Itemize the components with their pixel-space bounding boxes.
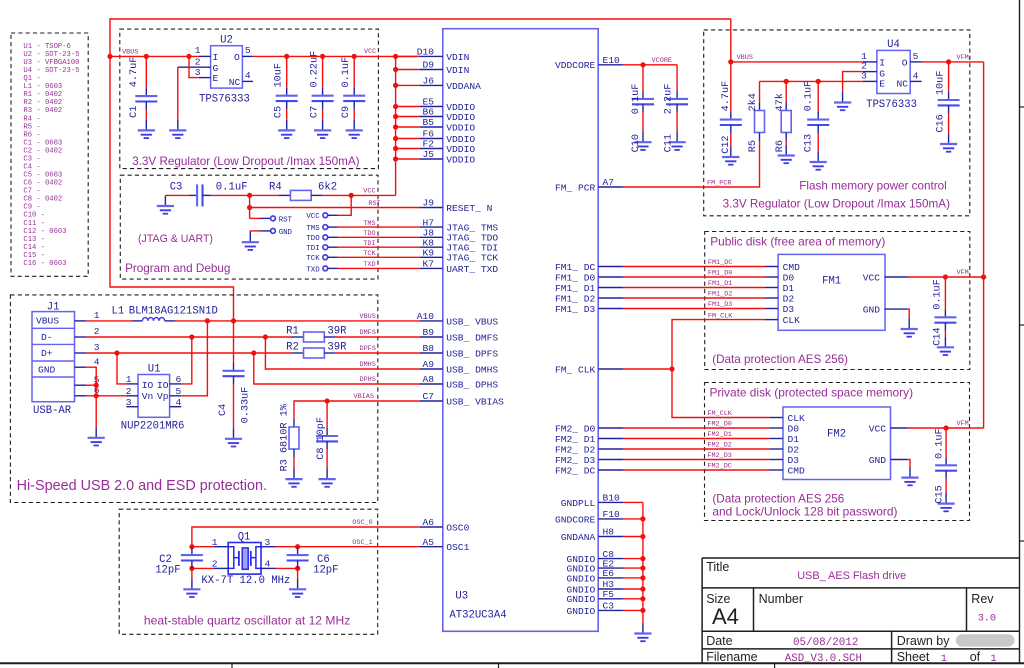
ground C5 bbox=[278, 120, 295, 138]
oscillator dashed box bbox=[119, 509, 378, 634]
svg-text:R5 -: R5 - bbox=[23, 123, 40, 131]
svg-text:U4: U4 bbox=[887, 39, 900, 51]
svg-text:(Data protection AES 256): (Data protection AES 256) bbox=[712, 353, 848, 366]
svg-text:TMS: TMS bbox=[306, 225, 320, 233]
svg-text:1: 1 bbox=[195, 45, 201, 56]
svg-text:B5: B5 bbox=[422, 117, 434, 128]
FM2 pin D2 bbox=[770, 448, 783, 450]
svg-text:OSC_1: OSC_1 bbox=[352, 539, 372, 547]
svg-text:C13: C13 bbox=[804, 134, 815, 152]
svg-text:R6 -: R6 - bbox=[23, 131, 40, 139]
U3 pin B9 USB_ DMFS bbox=[420, 336, 443, 338]
ground R6 bbox=[778, 145, 795, 163]
svg-text:FM2_ D2: FM2_ D2 bbox=[555, 444, 596, 455]
svg-text:A7: A7 bbox=[603, 177, 615, 188]
svg-text:C7: C7 bbox=[422, 391, 434, 402]
svg-text:USB_ DPFS: USB_ DPFS bbox=[446, 348, 498, 359]
U3 pin FM1_ D1 bbox=[598, 287, 623, 289]
FM2 pin D0 bbox=[770, 427, 783, 429]
svg-text:R2 - 0402: R2 - 0402 bbox=[23, 99, 62, 107]
svg-text:DPHS: DPHS bbox=[360, 376, 376, 384]
capacitor C14 bbox=[944, 277, 946, 309]
U4 pin 1 stub bbox=[863, 61, 877, 63]
svg-text:VDIN: VDIN bbox=[446, 65, 469, 76]
svg-text:FM_ CLK: FM_ CLK bbox=[555, 364, 596, 375]
capacitor C7 bbox=[322, 56, 324, 87]
svg-text:VDDIO: VDDIO bbox=[446, 112, 475, 123]
ground C6 bbox=[289, 579, 306, 597]
U3 pin J8 JTAG_ TDO bbox=[420, 236, 443, 238]
wire VBUS feeder to USB section bbox=[110, 56, 234, 321]
capacitor C11 bbox=[676, 65, 678, 91]
Hi-Speed USB dashed box bbox=[10, 295, 377, 503]
U1 pin 1 stub bbox=[126, 383, 138, 385]
svg-text:D3: D3 bbox=[788, 455, 800, 466]
svg-text:USB-AR: USB-AR bbox=[33, 405, 72, 417]
svg-text:U2: U2 bbox=[220, 34, 233, 46]
ground JTAG header bbox=[242, 232, 259, 250]
svg-text:C15: C15 bbox=[935, 485, 946, 503]
svg-text:VCORE: VCORE bbox=[652, 57, 672, 65]
svg-text:VBUS: VBUS bbox=[36, 315, 59, 326]
border zone tick bottom x498 bbox=[498, 663, 500, 668]
U4 pin 5 stub bbox=[910, 61, 921, 63]
svg-text:0.1uF: 0.1uF bbox=[804, 81, 815, 112]
svg-text:3: 3 bbox=[265, 537, 271, 548]
svg-text:D0: D0 bbox=[783, 272, 795, 283]
svg-text:4: 4 bbox=[245, 70, 251, 81]
svg-text:GND: GND bbox=[279, 229, 293, 237]
wire U2 pin3 to rail bbox=[189, 56, 199, 77]
svg-text:UART_ TXD: UART_ TXD bbox=[446, 264, 498, 275]
wire FM2 GND to ground bbox=[907, 460, 910, 468]
svg-text:Sheet: Sheet bbox=[897, 650, 930, 664]
svg-text:C1: C1 bbox=[129, 106, 140, 118]
U3 pin FM2_ D3 bbox=[598, 459, 623, 461]
pin VCC open circle bbox=[323, 213, 328, 218]
svg-text:VDIN: VDIN bbox=[446, 52, 469, 63]
wire TDO to chip bbox=[328, 236, 338, 238]
svg-text:FM1_ D2: FM1_ D2 bbox=[555, 293, 596, 304]
svg-text:GNDCORE: GNDCORE bbox=[555, 514, 596, 525]
svg-text:JTAG_ TCK: JTAG_ TCK bbox=[446, 253, 498, 264]
svg-text:TDO: TDO bbox=[363, 230, 375, 238]
ground C16 bbox=[940, 133, 957, 151]
svg-text:3: 3 bbox=[94, 342, 100, 353]
capacitor C12 bbox=[730, 62, 732, 112]
wire R1 to chip DMFS bbox=[336, 336, 420, 338]
svg-text:TDO: TDO bbox=[306, 235, 320, 243]
wire VBUS rail to U4 pin1 bbox=[731, 61, 863, 63]
capacitor C8 bbox=[326, 401, 328, 428]
ground U2 pin2 bbox=[169, 120, 186, 138]
U3 pin FM2_ D0 bbox=[598, 427, 623, 429]
flash power dashed box bbox=[704, 30, 970, 216]
U3 pin K7 UART_ TXD bbox=[420, 267, 443, 269]
svg-text:VBIAS: VBIAS bbox=[354, 393, 374, 401]
svg-text:C8 - 0402: C8 - 0402 bbox=[23, 196, 62, 204]
svg-text:J5: J5 bbox=[422, 149, 434, 160]
wire FM_CLK to FM2 bbox=[672, 369, 770, 418]
svg-text:1: 1 bbox=[94, 310, 100, 321]
wire top rail bbox=[110, 19, 731, 56]
svg-text:VDDANA: VDDANA bbox=[446, 81, 481, 92]
capacitor C4 symbol bbox=[223, 363, 245, 384]
svg-text:3: 3 bbox=[126, 397, 132, 408]
capacitor C16 bbox=[948, 62, 950, 92]
svg-text:C16: C16 bbox=[936, 114, 947, 132]
svg-text:USB_ DMHS: USB_ DMHS bbox=[446, 364, 498, 375]
svg-text:C12: C12 bbox=[721, 135, 732, 153]
wire R5 bottom FM_PCR bbox=[623, 141, 760, 188]
svg-text:R3 6810R 1%: R3 6810R 1% bbox=[280, 403, 291, 471]
svg-text:(JTAG & UART): (JTAG & UART) bbox=[138, 233, 213, 245]
U3 pin F6 VDDIO bbox=[420, 138, 443, 140]
svg-text:10uF: 10uF bbox=[274, 63, 285, 87]
svg-text:Title: Title bbox=[706, 560, 729, 574]
svg-text:C7: C7 bbox=[309, 106, 320, 118]
svg-text:U3 - VFBGA100: U3 - VFBGA100 bbox=[23, 59, 79, 67]
svg-text:VCC: VCC bbox=[863, 272, 881, 283]
wire Q1 pin3 to C6 bbox=[276, 546, 298, 548]
svg-text:0.33uF: 0.33uF bbox=[240, 387, 251, 424]
svg-text:GNDIO: GNDIO bbox=[567, 606, 596, 617]
svg-text:FM2_ D3: FM2_ D3 bbox=[555, 455, 596, 466]
svg-text:GNDIO: GNDIO bbox=[567, 594, 596, 605]
FM2 pin D1 bbox=[770, 438, 783, 440]
ground C14 bbox=[937, 337, 954, 355]
svg-text:R1 - 0402: R1 - 0402 bbox=[23, 91, 62, 99]
svg-text:TPS76333: TPS76333 bbox=[866, 99, 917, 111]
svg-text:TXD: TXD bbox=[306, 266, 320, 274]
capacitor C9 bbox=[353, 56, 355, 87]
svg-text:R5: R5 bbox=[748, 140, 759, 152]
U3 pin J9 RESET_ N bbox=[420, 207, 443, 209]
svg-text:C3: C3 bbox=[170, 181, 183, 193]
svg-text:AT32UC3A4: AT32UC3A4 bbox=[449, 610, 506, 622]
svg-text:DPFS: DPFS bbox=[360, 345, 376, 353]
U2 pin 1 stub bbox=[199, 55, 211, 57]
U3 pin B5 VDDIO bbox=[420, 126, 443, 128]
svg-text:5: 5 bbox=[245, 45, 251, 56]
FM1 pin GND bbox=[885, 308, 908, 310]
svg-text:GNDIO: GNDIO bbox=[567, 573, 596, 584]
capacitor C15 bbox=[945, 428, 947, 457]
svg-text:J6: J6 bbox=[422, 76, 434, 87]
svg-text:GNDPLL: GNDPLL bbox=[561, 498, 596, 509]
svg-text:I: I bbox=[213, 52, 219, 63]
wire TDI to chip bbox=[328, 246, 338, 248]
FM1 pin D1 bbox=[765, 287, 778, 289]
inductor L1 row VBUS bbox=[86, 320, 132, 322]
U3 pin C8 bbox=[598, 558, 623, 560]
svg-text:VDDIO: VDDIO bbox=[446, 154, 475, 165]
U3 pin K8 JTAG_ TDI bbox=[420, 246, 443, 248]
capacitor C15 symbol bbox=[935, 457, 957, 478]
svg-text:Date: Date bbox=[706, 634, 732, 648]
wire rail U2 out to bus bbox=[253, 55, 420, 57]
svg-text:R1: R1 bbox=[286, 325, 299, 337]
svg-text:OSC0: OSC0 bbox=[446, 522, 469, 533]
capacitor C2 symbol bbox=[181, 547, 203, 568]
U3 pin H7 JTAG_ TMS bbox=[420, 226, 443, 228]
svg-text:0.1uF: 0.1uF bbox=[341, 57, 352, 88]
wire J1 pin4 GND down bbox=[86, 367, 96, 427]
capacitor C11 symbol bbox=[666, 91, 688, 112]
U3 pin FM2_ DC bbox=[598, 469, 623, 471]
wire VBIAS row bbox=[294, 401, 420, 419]
svg-text:E: E bbox=[213, 73, 219, 84]
wire U4 pin3 rail bbox=[760, 80, 863, 82]
resistor R6 symbol bbox=[781, 103, 791, 141]
svg-text:0.22uF: 0.22uF bbox=[309, 51, 320, 88]
J1 pin 5 stub bbox=[75, 384, 87, 386]
U3 pin D10 VDIN bbox=[420, 55, 443, 57]
U2 pin 3 stub bbox=[199, 77, 211, 79]
wire OSC_O row bbox=[192, 527, 420, 547]
U3 pin E5 VDDIO bbox=[420, 106, 443, 108]
svg-text:RESET_ N: RESET_ N bbox=[446, 203, 492, 214]
wire VDDCORE to C10 C11 bbox=[623, 64, 677, 66]
U3 pin A8 USB_ DPHS bbox=[420, 383, 443, 385]
svg-text:GND: GND bbox=[869, 455, 887, 466]
border zone tick bottom x232 bbox=[231, 663, 233, 668]
svg-text:A5: A5 bbox=[422, 537, 434, 548]
svg-text:FM2_DC: FM2_DC bbox=[707, 463, 731, 471]
FM1 pin D3 bbox=[765, 308, 778, 310]
wire R4 right to VCC bus bbox=[323, 194, 396, 196]
svg-text:C14: C14 bbox=[933, 327, 944, 345]
svg-text:VBUS: VBUS bbox=[737, 54, 753, 62]
FM2 pin VCC bbox=[891, 427, 908, 429]
wire R2 to chip DPFS bbox=[336, 352, 420, 354]
pin RST open circle bbox=[271, 216, 276, 221]
svg-text:VCC: VCC bbox=[306, 213, 320, 221]
svg-text:U1 - TSOP-6: U1 - TSOP-6 bbox=[23, 43, 70, 51]
wire GND pin to ground bbox=[261, 230, 271, 232]
svg-text:TDI: TDI bbox=[363, 240, 375, 248]
svg-text:C9 -: C9 - bbox=[23, 204, 40, 212]
wire U1 pin1 to D+ bbox=[117, 353, 126, 384]
U3 pin FM1_ DC bbox=[598, 266, 623, 268]
svg-text:FM1_ D1: FM1_ D1 bbox=[555, 283, 596, 294]
svg-text:4: 4 bbox=[94, 356, 100, 367]
wire TXD to chip bbox=[328, 267, 338, 269]
J1 cell labels bbox=[36, 315, 59, 375]
capacitor C13 symbol bbox=[807, 112, 829, 133]
svg-text:TCK: TCK bbox=[363, 250, 376, 258]
svg-text:2: 2 bbox=[195, 56, 201, 67]
wire U4 pin2 to ground bbox=[843, 72, 863, 92]
svg-text:4: 4 bbox=[913, 71, 919, 82]
svg-text:VCC: VCC bbox=[364, 48, 376, 56]
U1 pin 6 stub bbox=[170, 383, 182, 385]
svg-text:C3 -: C3 - bbox=[23, 156, 40, 164]
ground C13 bbox=[810, 151, 827, 169]
svg-text:GND: GND bbox=[863, 305, 881, 316]
svg-text:D0: D0 bbox=[788, 423, 800, 434]
wire VFM bus vertical bbox=[983, 62, 985, 428]
svg-text:of: of bbox=[970, 650, 981, 664]
svg-text:RST: RST bbox=[279, 216, 293, 224]
svg-text:C11: C11 bbox=[664, 134, 675, 152]
pin TXD open circle bbox=[323, 266, 328, 271]
svg-text:Private disk (protected space: Private disk (protected space memory) bbox=[710, 386, 914, 400]
svg-text:USB_ DMFS: USB_ DMFS bbox=[446, 332, 498, 343]
wire VCC pin to R4 junction bbox=[328, 214, 338, 216]
svg-text:IO: IO bbox=[157, 380, 169, 391]
svg-text:Program and Debug: Program and Debug bbox=[125, 262, 230, 275]
svg-text:C4: C4 bbox=[218, 404, 229, 416]
U3 pin K9 JTAG_ TCK bbox=[420, 256, 443, 258]
svg-text:Flash memory power control: Flash memory power control bbox=[799, 179, 946, 192]
svg-text:J1: J1 bbox=[47, 301, 60, 313]
wire to RST pin circle bbox=[250, 217, 261, 219]
pin GND open circle bbox=[271, 229, 276, 234]
wire OSC_I row bbox=[298, 546, 420, 548]
memory FM2 bbox=[783, 407, 891, 480]
U3 pin F10 bbox=[598, 518, 623, 520]
border zone tick right y541 bbox=[1020, 540, 1024, 542]
ESD protection U1 NUP2201MR6 bbox=[138, 375, 170, 418]
svg-text:FM2_D2: FM2_D2 bbox=[707, 442, 731, 450]
svg-text:12pF: 12pF bbox=[313, 565, 338, 577]
U4 pin letters bbox=[879, 57, 908, 89]
ground FM2 bbox=[901, 467, 918, 485]
ground C1 bbox=[138, 120, 155, 138]
svg-text:ASD_V3.0.SCH: ASD_V3.0.SCH bbox=[785, 653, 862, 665]
svg-text:B8: B8 bbox=[422, 343, 434, 354]
U3 pin E6 bbox=[598, 577, 623, 579]
ground C7 bbox=[314, 120, 331, 138]
J1 pin 1 stub bbox=[75, 320, 87, 322]
FM1 pin CMD bbox=[765, 266, 778, 268]
ground C2 bbox=[183, 579, 200, 597]
svg-text:H8: H8 bbox=[603, 527, 615, 538]
U3 pin A5 OSC1 bbox=[420, 546, 443, 548]
svg-text:FM2_D3: FM2_D3 bbox=[707, 452, 731, 460]
U3 pin J5 VDDIO bbox=[420, 158, 443, 160]
svg-text:U4 - SOT-23-5: U4 - SOT-23-5 bbox=[23, 67, 79, 75]
U3 pin H3 bbox=[598, 588, 623, 590]
svg-text:OSC_0: OSC_0 bbox=[352, 519, 372, 527]
U1 pin 3 stub bbox=[126, 406, 138, 408]
svg-text:0.1uF: 0.1uF bbox=[933, 279, 944, 310]
wire C3 to R4 bbox=[211, 194, 280, 196]
Program and Debug dashed box bbox=[120, 175, 378, 279]
svg-text:Rev: Rev bbox=[971, 592, 994, 606]
svg-text:D1: D1 bbox=[788, 434, 800, 445]
svg-text:1: 1 bbox=[941, 654, 947, 665]
svg-text:5: 5 bbox=[913, 51, 919, 62]
svg-text:E6: E6 bbox=[603, 568, 615, 579]
svg-text:J9: J9 bbox=[422, 198, 434, 209]
svg-text:U1: U1 bbox=[148, 363, 161, 375]
border zone tick right y107 bbox=[1020, 106, 1024, 108]
wire C3 left bbox=[165, 194, 189, 196]
svg-text:47k: 47k bbox=[774, 93, 786, 111]
ground FM1 bbox=[901, 318, 918, 336]
wire VBUS rail bbox=[110, 55, 199, 57]
svg-text:3.0: 3.0 bbox=[978, 614, 996, 625]
wire D+ row bbox=[86, 352, 292, 354]
wire U1 pin5 to VBUS bbox=[181, 321, 207, 396]
FM2 pin D3 bbox=[770, 459, 783, 461]
svg-text:DMFS: DMFS bbox=[360, 329, 376, 337]
svg-text:FM_CLK: FM_CLK bbox=[707, 410, 732, 418]
svg-text:NC: NC bbox=[896, 78, 908, 89]
svg-text:CMD: CMD bbox=[783, 262, 801, 273]
capacitor C12 symbol bbox=[720, 112, 742, 133]
wire GND bus of U3 bbox=[623, 501, 643, 503]
svg-text:IO: IO bbox=[142, 380, 154, 391]
svg-text:VCC: VCC bbox=[869, 423, 887, 434]
svg-text:FM1_DC: FM1_DC bbox=[708, 259, 732, 267]
U3 pin A7 bbox=[598, 186, 623, 188]
svg-text:FM1_D2: FM1_D2 bbox=[708, 291, 732, 299]
svg-text:and Lock/Unlock 128 bit passwo: and Lock/Unlock 128 bit password) bbox=[712, 505, 897, 519]
FM1 pin VCC bbox=[885, 276, 908, 278]
memory FM1 bbox=[778, 254, 885, 330]
svg-text:heat-stable quartz oscillator: heat-stable quartz oscillator at 12 MHz bbox=[144, 614, 350, 628]
svg-text:0.1uF: 0.1uF bbox=[935, 428, 946, 459]
svg-text:FM1_ D0: FM1_ D0 bbox=[555, 272, 596, 283]
U3 pin E10 bbox=[598, 64, 623, 66]
svg-text:R4: R4 bbox=[269, 181, 282, 193]
svg-text:FM_PCR: FM_PCR bbox=[707, 180, 731, 188]
title block frame bbox=[702, 558, 1019, 663]
capacitor C5 symbol bbox=[276, 88, 298, 109]
svg-text:3.3V Regulator (Low Dropout /I: 3.3V Regulator (Low Dropout /Imax 150mA) bbox=[132, 155, 359, 168]
wire DMHS branch bbox=[265, 337, 420, 369]
svg-text:A4: A4 bbox=[712, 604, 739, 629]
svg-text:C10 -: C10 - bbox=[23, 212, 45, 220]
svg-text:5: 5 bbox=[176, 386, 182, 397]
svg-text:R2: R2 bbox=[286, 342, 299, 354]
svg-text:VFM: VFM bbox=[957, 54, 969, 62]
svg-text:DMHS: DMHS bbox=[360, 361, 376, 369]
svg-text:TPS76333: TPS76333 bbox=[199, 94, 250, 106]
wire VBUS row to chip bbox=[176, 320, 420, 322]
svg-text:39R: 39R bbox=[327, 325, 347, 337]
FM1 pin CLK bbox=[765, 319, 778, 321]
U2 pin letters bbox=[213, 52, 241, 88]
svg-text:C7 -: C7 - bbox=[23, 188, 40, 196]
ground C3 left bbox=[157, 195, 174, 213]
svg-text:2: 2 bbox=[126, 386, 132, 397]
svg-text:C8 10pF: C8 10pF bbox=[316, 417, 327, 460]
svg-text:FM1_ D3: FM1_ D3 bbox=[555, 304, 596, 315]
svg-text:05/08/2012: 05/08/2012 bbox=[793, 637, 858, 649]
pin TCK open circle bbox=[323, 255, 328, 260]
wire U4 output VFM bbox=[922, 61, 984, 63]
inductor L1 BLM18AG121SN1D bbox=[133, 318, 176, 321]
ground U3 bbox=[634, 623, 651, 641]
ground C9 bbox=[346, 120, 363, 138]
svg-text:C6 - 0402: C6 - 0402 bbox=[23, 180, 62, 188]
svg-text:L1 - 0603: L1 - 0603 bbox=[23, 83, 62, 91]
svg-text:O: O bbox=[234, 52, 240, 63]
ground C8 bbox=[319, 469, 336, 487]
svg-text:3.3V Regulator (Low Dropout /I: 3.3V Regulator (Low Dropout /Imax 150mA) bbox=[723, 198, 950, 211]
U3 pin B10 bbox=[598, 501, 623, 503]
svg-text:BLM18AG121SN1D: BLM18AG121SN1D bbox=[129, 306, 218, 318]
svg-text:FM1: FM1 bbox=[822, 275, 841, 287]
wire TMS to chip bbox=[328, 226, 338, 228]
U3 pin D9 VDIN bbox=[420, 69, 443, 71]
regulator U4 TPS76333 bbox=[877, 50, 910, 93]
svg-text:CLK: CLK bbox=[788, 413, 806, 424]
